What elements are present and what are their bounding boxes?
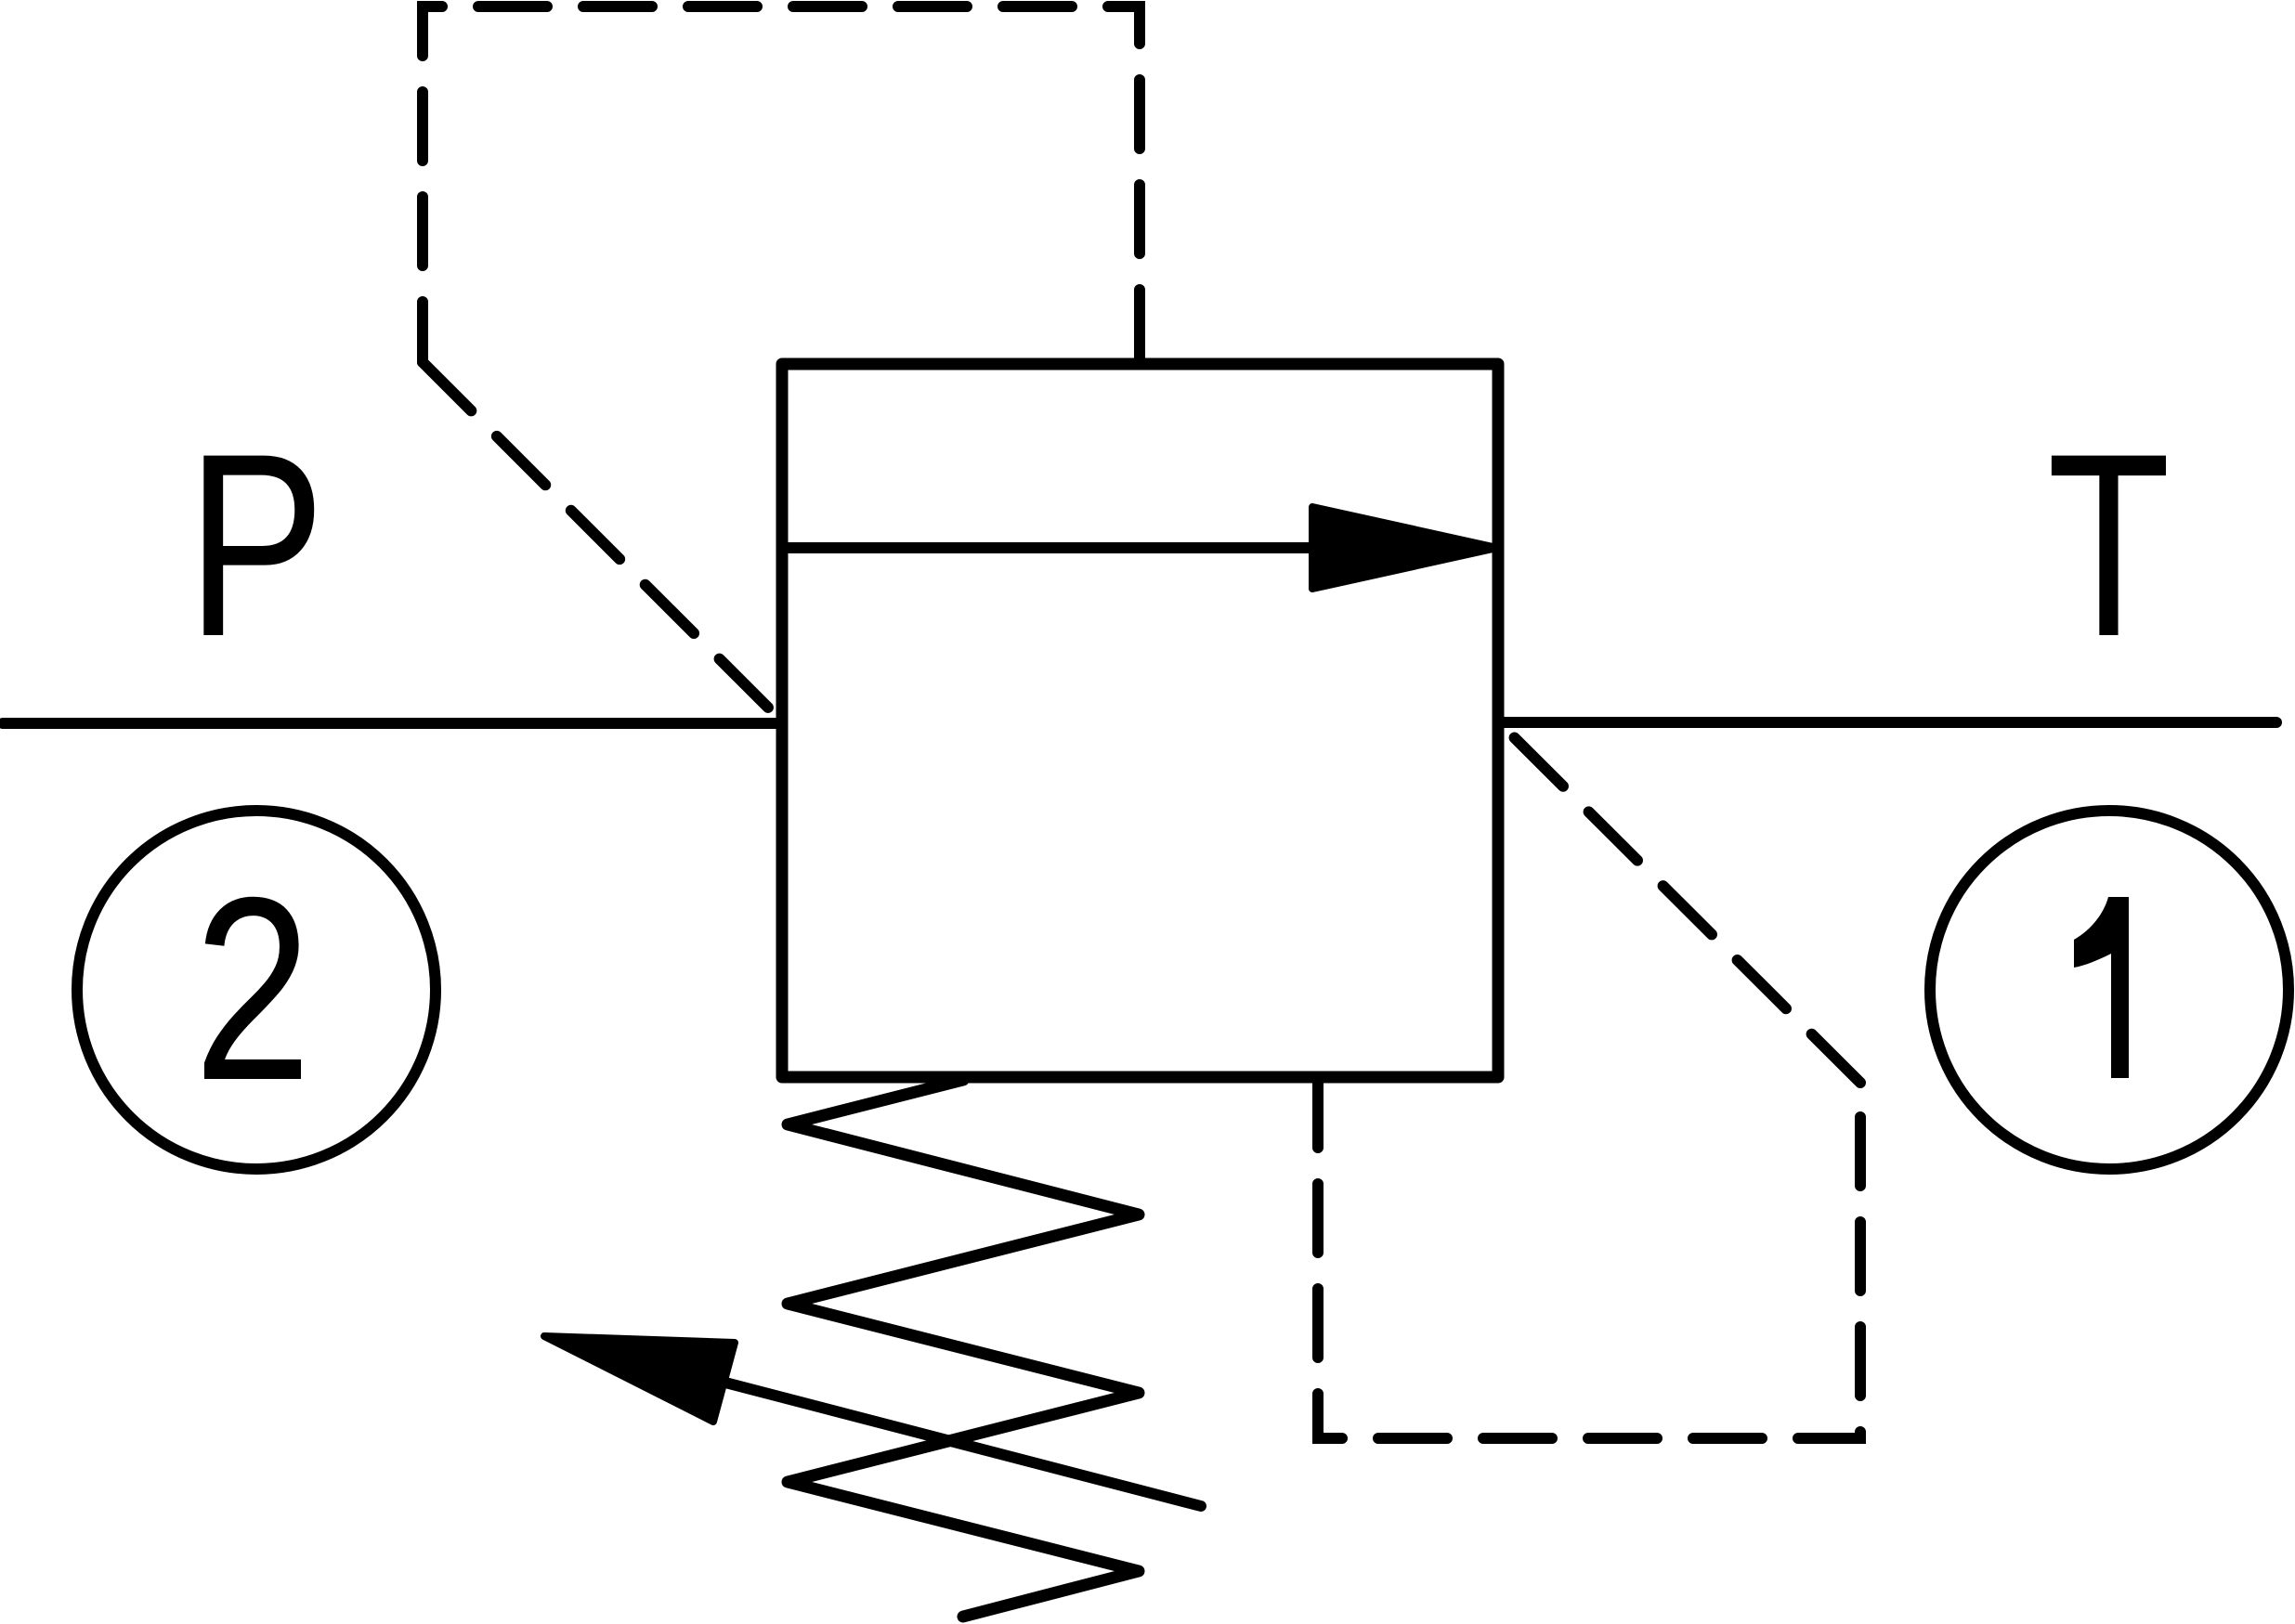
callout circle 1 [1930, 811, 2288, 1169]
callout number 1 [2074, 897, 2129, 1078]
svg-text:2: 2 [194, 843, 312, 1135]
svg-text:P: P [187, 399, 325, 691]
wire P port line [3, 718, 782, 729]
pilot line diagonal (dashed) to P port at valve inlet [423, 362, 782, 721]
valve body V1 [782, 364, 1498, 1077]
callout circle 2 [77, 811, 436, 1169]
drain line (dashed) from spring chamber, down and right [1318, 1079, 1860, 1438]
adjustment arrow head [544, 1336, 735, 1422]
svg-text:T: T [2047, 399, 2171, 691]
spring [788, 1080, 1139, 1617]
drain line diagonal (dashed) up to T port at valve outlet [1498, 721, 1860, 1083]
adjustment arrow shaft [650, 1363, 1201, 1506]
flow arrow shaft [785, 542, 1356, 553]
wire T port line [1498, 717, 2276, 728]
pilot line (dashed) from valve top to above-left [423, 6, 1140, 362]
flow arrow head [1312, 507, 1497, 589]
